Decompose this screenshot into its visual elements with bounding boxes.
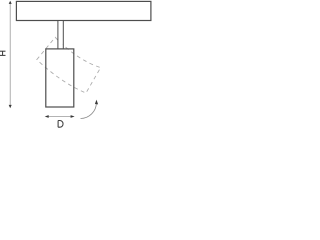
lamp body (cylinder outline)	[46, 49, 74, 107]
track rail	[16, 1, 151, 20]
label D	[58, 121, 63, 128]
arrowhead H top	[9, 1, 12, 4]
dashed rotated lamp body (ghost)	[37, 37, 101, 93]
arrowhead D left	[45, 115, 49, 118]
rotation arc arrow	[81, 103, 97, 119]
arrowhead H bottom	[9, 105, 12, 108]
stem (track adapter)	[58, 21, 62, 48]
dimension line D (horizontal, bottom)	[46, 116, 74, 118]
arrowhead D right	[71, 115, 75, 118]
dimension line H (vertical, left)	[9, 2, 11, 107]
label H (rotated)	[0, 51, 6, 55]
arrowhead rotation arc	[95, 100, 98, 105]
